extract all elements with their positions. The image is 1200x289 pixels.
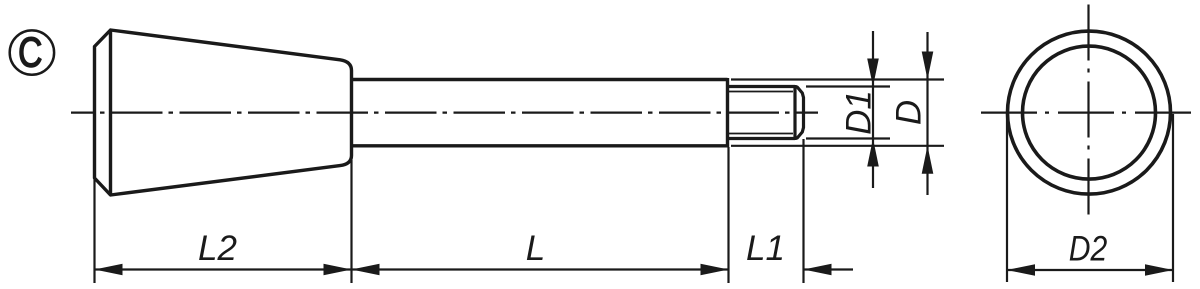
extension line cone/shaft junction bbox=[350, 160, 352, 283]
dimension L2 line bbox=[95, 268, 352, 270]
extension line shoulder bbox=[727, 147, 729, 283]
end view inner circle bbox=[1023, 46, 1156, 179]
svg-text:C: C bbox=[18, 30, 42, 76]
dimension L1 tail line bbox=[804, 268, 854, 270]
end view vertical centerline bbox=[1087, 5, 1089, 219]
extension line thread end bbox=[802, 139, 804, 283]
svg-text:D2: D2 bbox=[1069, 230, 1108, 269]
dimension L arrow left bbox=[352, 264, 380, 276]
view label C (circled letter) bbox=[10, 30, 54, 76]
svg-text:L: L bbox=[526, 229, 545, 268]
dimension L line bbox=[352, 268, 729, 270]
thread major diameter bottom bbox=[728, 137, 796, 140]
extension line L2 left bbox=[93, 179, 95, 283]
dimension L2 arrow right bbox=[324, 264, 352, 276]
extension line shaft bottom (for D) bbox=[731, 145, 944, 147]
dimension D line bbox=[926, 32, 928, 195]
extension line D2 right bbox=[1172, 114, 1174, 282]
dimension D2 arrow right bbox=[1145, 264, 1173, 276]
extension line thread top (for D1) bbox=[806, 85, 890, 87]
handle cone outline bbox=[95, 30, 352, 195]
extension line thread bottom (for D1) bbox=[806, 137, 890, 139]
shaft top line bbox=[352, 78, 728, 81]
dimension D2 arrow left bbox=[1007, 264, 1035, 276]
dimension D arrow bottom bbox=[922, 146, 934, 174]
dimension D2 line bbox=[1007, 269, 1173, 271]
svg-text:D1: D1 bbox=[840, 90, 879, 135]
dimension D1 line bbox=[872, 31, 874, 188]
dimension L1 arrow bbox=[804, 264, 832, 276]
dimension D arrow top bbox=[922, 52, 934, 80]
shaft bottom line bbox=[352, 144, 728, 147]
thread minor (root) bottom bbox=[729, 133, 793, 135]
svg-text:L2: L2 bbox=[198, 229, 237, 268]
thread minor (root) top bbox=[729, 91, 793, 93]
thread tip outline bbox=[795, 87, 804, 139]
centerline main axis bbox=[71, 111, 818, 113]
dimension L2 arrow left bbox=[95, 264, 123, 276]
dimension D1 arrow bottom bbox=[867, 139, 879, 167]
thread chamfer edge bbox=[793, 85, 796, 140]
dimension D1 arrow top bbox=[867, 59, 879, 87]
extension line D2 left bbox=[1006, 114, 1008, 282]
shaft shoulder at thread bbox=[726, 78, 729, 147]
end view horizontal centerline bbox=[981, 111, 1195, 113]
svg-text:D: D bbox=[890, 100, 929, 125]
dimension L arrow right bbox=[701, 264, 729, 276]
thread major diameter top bbox=[728, 85, 796, 88]
handle cone left face edge bbox=[109, 30, 112, 195]
end view outer circle bbox=[1008, 31, 1171, 194]
extension line shaft top (for D) bbox=[731, 78, 944, 80]
svg-text:L1: L1 bbox=[746, 229, 785, 268]
